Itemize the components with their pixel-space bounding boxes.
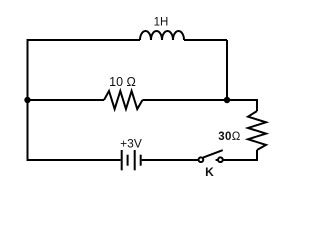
node junction dot right [224,97,230,103]
wire top-right horizontal [184,39,227,41]
svg-text:1H: 1H [154,17,169,29]
resistor R1 10 ohm [104,91,143,109]
wire right vertical upper stub [256,99,258,111]
wire switch to corner [216,159,257,161]
node junction dot left [24,97,30,103]
svg-text:+3V: +3V [120,137,142,151]
battery B1 plates [122,150,141,170]
wire middle left [28,99,105,101]
switch K lever [204,150,222,157]
switch K contact circle [218,157,223,162]
resistor R2 30 ohm [248,111,266,150]
inductor L1 1H [140,31,184,40]
switch K pivot circle [199,157,204,162]
svg-text:30Ω: 30Ω [218,131,241,143]
svg-text:10 Ω: 10 Ω [109,75,136,89]
svg-text:K: K [205,165,214,179]
wire right upper vertical [226,40,228,100]
wire bottom left [28,159,121,161]
wire left vertical [27,39,29,161]
wire right vertical lower stub [256,150,258,161]
wire battery to switch [142,159,198,161]
wire middle right [143,99,258,101]
wire top-left horizontal [28,39,141,41]
